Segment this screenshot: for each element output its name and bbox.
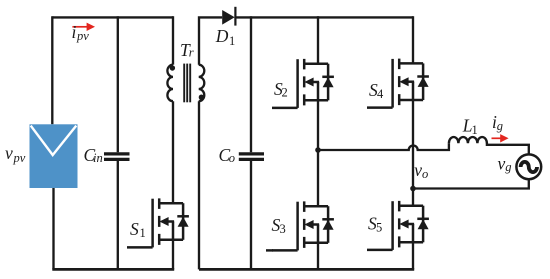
wire mid rail with crossover hop to inductor <box>318 143 449 150</box>
MOSFET S2 <box>272 59 334 108</box>
wire primary bottom to S1 drain <box>172 101 174 203</box>
capacitor Co <box>239 154 264 160</box>
svg-text:g: g <box>497 119 503 133</box>
svg-text:v: v <box>498 154 506 174</box>
svg-text:r: r <box>189 46 194 60</box>
transformer Tr secondary winding <box>199 65 205 102</box>
svg-text:o: o <box>422 167 428 181</box>
transformer Tr core <box>184 64 190 103</box>
wire bottom bus primary side <box>52 268 174 271</box>
wire S4 source to output node <box>412 100 414 189</box>
transformer dot primary <box>170 65 175 70</box>
svg-text:D: D <box>215 26 229 46</box>
MOSFET S1 <box>127 198 189 247</box>
transformer dot secondary <box>199 95 204 100</box>
wire right leg top to S4 drain <box>412 16 414 63</box>
current arrow i_g <box>492 134 509 142</box>
wire S3 source to bottom bus <box>317 243 319 270</box>
wire left leg top to S2 drain <box>317 16 319 64</box>
current arrow i_pv <box>72 23 95 31</box>
MOSFET S3 <box>272 201 334 250</box>
wire secondary top to D1 anode <box>199 17 222 64</box>
wire bottom bus secondary side <box>199 268 414 271</box>
svg-text:3: 3 <box>280 222 286 236</box>
wire PV bottom to bottom bus <box>52 188 54 269</box>
svg-text:4: 4 <box>377 87 384 101</box>
wire Co bottom <box>250 161 252 270</box>
MOSFET S4 <box>367 59 429 108</box>
svg-text:in: in <box>93 151 103 165</box>
capacitor Cin <box>104 154 130 160</box>
svg-text:o: o <box>229 151 235 165</box>
wire secondary bottom to bottom bus <box>198 101 200 269</box>
transformer Tr primary winding <box>167 65 173 102</box>
junction dot mid rail left leg <box>315 147 321 153</box>
wire Cin top <box>117 16 119 152</box>
svg-text:i: i <box>72 22 77 42</box>
wire vg source bottom to output node <box>413 179 529 189</box>
wire Cin bottom <box>117 161 119 270</box>
svg-text:1: 1 <box>140 226 146 240</box>
svg-text:1: 1 <box>229 34 235 48</box>
diode D1 <box>222 7 235 26</box>
svg-text:5: 5 <box>376 220 382 234</box>
PV module panel <box>30 124 78 188</box>
wire primary top <box>172 16 174 64</box>
wire D1 cathode to H-bridge top bus <box>236 16 413 18</box>
wire mid node to S3 drain <box>317 150 319 206</box>
wire output node to S5 drain <box>412 189 414 206</box>
svg-text:pv: pv <box>13 151 26 165</box>
svg-text:S: S <box>130 219 139 239</box>
svg-text:1: 1 <box>472 123 478 137</box>
svg-text:g: g <box>505 160 511 174</box>
svg-text:v: v <box>5 143 13 163</box>
svg-text:2: 2 <box>282 86 288 100</box>
wire inductor to vg source top <box>487 143 529 155</box>
AC source vg <box>516 154 541 179</box>
inductor L1 <box>449 137 487 143</box>
wire left vertical from top bus to PV top <box>51 16 53 124</box>
wire S5 source to bottom bus <box>412 242 414 269</box>
wire top-left bus <box>52 16 173 18</box>
svg-text:pv: pv <box>76 29 89 43</box>
wire S2 source to mid node <box>317 100 319 150</box>
wire S1 source to bottom bus <box>172 240 174 270</box>
wire Co top <box>250 16 252 152</box>
junction dot output node right leg <box>410 186 416 192</box>
MOSFET S5 <box>367 201 429 250</box>
